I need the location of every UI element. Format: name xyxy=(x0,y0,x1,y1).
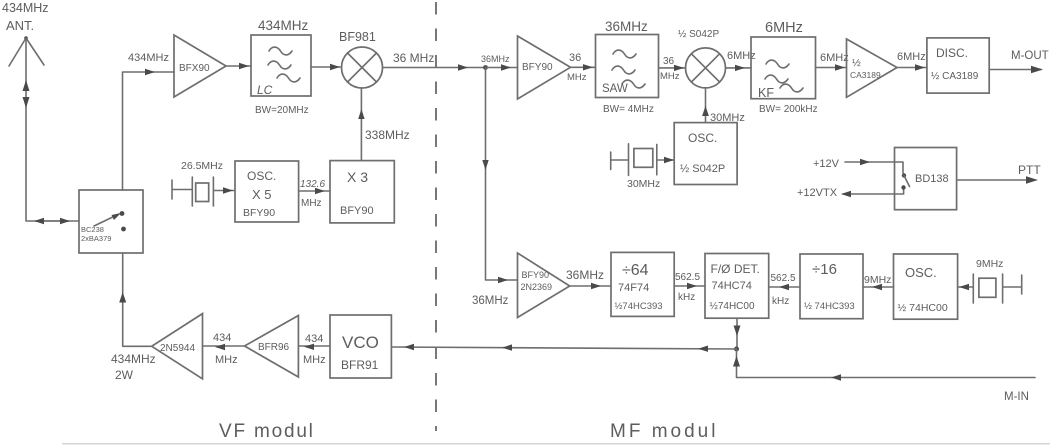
amplifier BFY90 xyxy=(518,36,571,99)
wire divider64 to F/O det xyxy=(674,283,705,289)
wire +12V to BD138 xyxy=(845,159,903,173)
svg-text:BW=20MHz: BW=20MHz xyxy=(255,105,309,116)
filter KF xyxy=(751,37,816,100)
multiplier X3 BFY90 xyxy=(330,161,394,223)
wire 2N2369 to divider 64 xyxy=(570,283,611,289)
svg-text:36: 36 xyxy=(569,52,581,64)
wire F/O det down to node B xyxy=(734,318,741,349)
svg-text:36MHz: 36MHz xyxy=(472,295,509,307)
oscillator OSC X5 BFY90 xyxy=(235,161,299,222)
svg-text:BF981: BF981 xyxy=(339,30,376,44)
amplifier BFY90 2N2369 xyxy=(518,253,570,318)
svg-text:OSC.: OSC. xyxy=(247,169,276,183)
svg-text:BD138: BD138 xyxy=(915,173,949,185)
label 434MHz 2W xyxy=(111,352,156,382)
svg-text:F/Ø DET.: F/Ø DET. xyxy=(711,262,760,276)
svg-text:VCO: VCO xyxy=(342,333,379,352)
amplifier U3 1/2 CA3189 xyxy=(847,39,898,97)
svg-text:+12V: +12V xyxy=(813,158,840,170)
label 36 MHz xyxy=(660,56,680,82)
svg-text:+12VTX: +12VTX xyxy=(797,187,838,199)
wire node A to BFY90 xyxy=(486,64,518,70)
svg-text:kHz: kHz xyxy=(772,296,789,307)
svg-text:36MHz: 36MHz xyxy=(481,54,510,64)
svg-text:2N5944: 2N5944 xyxy=(160,343,195,354)
mixer BF981 xyxy=(342,47,383,88)
scan edge line xyxy=(62,443,1050,445)
svg-text:36: 36 xyxy=(663,56,675,67)
svg-text:MF modul: MF modul xyxy=(610,421,718,442)
svg-text:434MHz: 434MHz xyxy=(128,52,169,64)
switch box BC238 2xBA379 xyxy=(79,190,143,253)
wire LC to mixer BF981 xyxy=(311,64,342,70)
svg-text:kHz: kHz xyxy=(678,292,695,303)
TX/RX double arrow on antenna wire xyxy=(23,80,30,108)
wire OSC X5 to X3 xyxy=(299,188,330,194)
wire SAW to mixer2 xyxy=(659,65,686,71)
svg-text:½ 74HC393: ½ 74HC393 xyxy=(804,301,855,312)
svg-text:CA3189: CA3189 xyxy=(850,70,881,80)
mixer U2 S042P xyxy=(686,48,726,88)
svg-text:2N2369: 2N2369 xyxy=(521,282,553,292)
phase detector F/O DET 74HC74 xyxy=(705,254,769,319)
wire PTT xyxy=(957,176,1038,183)
svg-text:KF: KF xyxy=(758,86,774,100)
wire BFX90 to LC filter xyxy=(226,63,251,69)
svg-text:BFR96: BFR96 xyxy=(258,342,290,353)
amplifier BFR96 xyxy=(245,316,299,378)
label 36 MHz xyxy=(567,52,587,83)
svg-text:MHz: MHz xyxy=(215,354,238,366)
svg-text:562.5: 562.5 xyxy=(771,273,796,284)
svg-text:338MHz: 338MHz xyxy=(365,128,410,142)
svg-text:DISC.: DISC. xyxy=(936,46,968,60)
discriminator DISC 1/2 CA3189 xyxy=(927,38,989,93)
wire divider16 to F/O det xyxy=(769,284,800,290)
divider U5 /16 74HC393 xyxy=(800,254,863,319)
wire PLL control to VCO xyxy=(391,344,736,352)
label 434MHz ANT. xyxy=(2,1,49,33)
svg-text:OSC.: OSC. xyxy=(688,131,717,145)
amplifier BFX90 xyxy=(174,35,226,97)
svg-text:BFR91: BFR91 xyxy=(341,358,379,372)
svg-text:6MHz: 6MHz xyxy=(765,20,803,36)
svg-text:M-OUT: M-OUT xyxy=(1011,50,1049,62)
crystal X3 30MHz xyxy=(611,144,675,176)
svg-text:132.6: 132.6 xyxy=(300,179,325,190)
svg-text:÷64: ÷64 xyxy=(622,262,649,279)
label 434 MHz xyxy=(303,333,326,366)
crystal X2 9MHz xyxy=(973,274,1021,303)
svg-text:OSC.: OSC. xyxy=(905,265,937,280)
module separator dashed line xyxy=(435,2,437,431)
svg-text:BW= 4MHz: BW= 4MHz xyxy=(603,104,654,115)
svg-text:½ S042P: ½ S042P xyxy=(678,29,719,40)
wire +12VTX from BD138 xyxy=(841,189,904,197)
svg-text:MHz: MHz xyxy=(567,72,587,83)
wire mixer2 to KF xyxy=(726,65,752,71)
svg-text:9MHz: 9MHz xyxy=(976,258,1003,270)
svg-text:½74HC00: ½74HC00 xyxy=(710,301,755,312)
amplifier 2N5944 xyxy=(152,314,203,379)
svg-text:½74HC393: ½74HC393 xyxy=(615,301,663,312)
svg-text:VF modul: VF modul xyxy=(219,421,315,442)
svg-text:½: ½ xyxy=(852,57,861,69)
svg-text:MHz: MHz xyxy=(660,71,680,82)
svg-text:36 MHz: 36 MHz xyxy=(393,51,434,65)
svg-text:X 5: X 5 xyxy=(252,187,272,202)
wire 2N5944 to switch xyxy=(119,253,152,346)
svg-text:434: 434 xyxy=(305,333,323,345)
svg-text:MHz: MHz xyxy=(303,354,326,366)
svg-text:434MHz: 434MHz xyxy=(111,352,156,366)
svg-text:26.5MHz: 26.5MHz xyxy=(181,160,223,172)
svg-text:½ 74HC00: ½ 74HC00 xyxy=(898,302,948,314)
svg-text:434: 434 xyxy=(213,332,231,344)
svg-text:562.5: 562.5 xyxy=(675,272,700,283)
wire BFY90 to SAW xyxy=(571,64,596,70)
svg-text:30MHz: 30MHz xyxy=(627,178,660,190)
label 132.6 MHz xyxy=(300,179,325,209)
label 434 MHz xyxy=(213,332,238,366)
svg-text:2xBA379: 2xBA379 xyxy=(81,234,111,243)
oscillator VCO BFR91 xyxy=(330,315,391,378)
oscillator OSC 1/2 S042P xyxy=(674,123,737,185)
svg-text:BFY90: BFY90 xyxy=(522,62,553,73)
svg-text:BC238: BC238 xyxy=(81,225,104,234)
antenna xyxy=(9,36,44,66)
svg-text:PTT: PTT xyxy=(1018,163,1041,177)
node A junction 36MHz xyxy=(481,54,510,70)
svg-text:BFY90: BFY90 xyxy=(340,205,374,217)
wire antenna to switch xyxy=(26,38,79,221)
svg-text:36MHz: 36MHz xyxy=(566,268,604,282)
svg-text:2W: 2W xyxy=(115,368,134,382)
label 562.5 kHz xyxy=(675,272,700,303)
wire OSC to divider16 xyxy=(863,284,894,290)
label 562.5 kHz xyxy=(771,273,796,307)
wire node A down to BFY90 2N2369 xyxy=(482,68,517,284)
svg-text:36MHz: 36MHz xyxy=(605,19,648,34)
wire mixer1 to node A xyxy=(383,64,486,70)
wire OSC S042P to mixer2 xyxy=(702,89,709,123)
wire crystal to OSC xyxy=(958,284,974,290)
TX/RX double arrow horizontal xyxy=(34,218,70,224)
svg-text:MHz: MHz xyxy=(301,198,322,209)
wire M-OUT xyxy=(989,66,1043,73)
svg-text:BFX90: BFX90 xyxy=(179,63,210,74)
oscillator OSC 1/2 74HC00 xyxy=(894,254,958,319)
transistor switch BD138 xyxy=(895,148,957,210)
wire KF to amp CA3189 xyxy=(816,64,847,70)
wire BFR96 to 2N5944 xyxy=(203,344,245,350)
svg-text:9MHz: 9MHz xyxy=(864,274,891,286)
svg-text:ANT.: ANT. xyxy=(6,18,34,33)
svg-text:½ CA3189: ½ CA3189 xyxy=(931,71,979,82)
svg-text:÷16: ÷16 xyxy=(812,261,837,278)
node B junction xyxy=(734,347,739,352)
svg-text:434MHz: 434MHz xyxy=(258,18,309,33)
svg-text:BFY90: BFY90 xyxy=(243,207,275,219)
svg-text:434MHz: 434MHz xyxy=(2,1,49,15)
wire amp to DISC xyxy=(897,64,927,70)
wire switch to BFX90 xyxy=(123,69,175,190)
svg-text:6MHz: 6MHz xyxy=(820,52,849,64)
svg-text:LC: LC xyxy=(257,83,273,97)
divider U4 /64 74F74 xyxy=(611,252,674,316)
wire VCO to BFR96 xyxy=(298,344,330,350)
filter LC xyxy=(251,35,311,97)
crystal X1 26.5MHz xyxy=(172,177,235,206)
svg-text:M-IN: M-IN xyxy=(1004,391,1029,403)
svg-text:BW= 200kHz: BW= 200kHz xyxy=(759,104,818,115)
wire M-IN to node B xyxy=(733,349,1035,381)
svg-text:6MHz: 6MHz xyxy=(897,51,926,63)
wire X3 to mixer1 338MHz xyxy=(358,88,364,161)
svg-text:SAW: SAW xyxy=(602,83,628,95)
svg-text:74F74: 74F74 xyxy=(618,282,649,294)
filter SAW xyxy=(596,35,659,98)
svg-text:BFY90: BFY90 xyxy=(522,270,550,280)
svg-text:74HC74: 74HC74 xyxy=(712,280,752,292)
svg-text:X 3: X 3 xyxy=(347,169,368,185)
svg-text:½ S042P: ½ S042P xyxy=(680,163,725,175)
